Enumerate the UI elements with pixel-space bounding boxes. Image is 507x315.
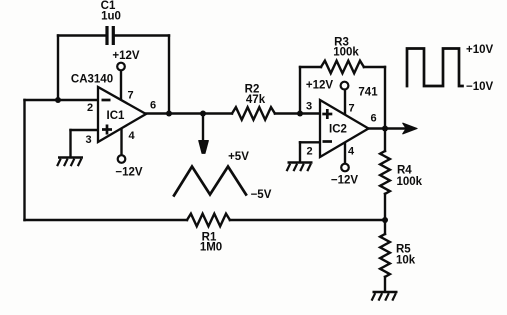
op-amp U1 IC1 CA3140 — [71, 74, 146, 143]
node triangle output branch — [200, 111, 206, 117]
arrow square wave output — [403, 123, 417, 134]
arrow triangle output probe — [199, 141, 209, 154]
ground below IC1 pin 3 — [57, 158, 83, 167]
wire IC2 output — [369, 127, 406, 129]
wire bottom feedback run left of R1 — [25, 219, 188, 221]
resistor R2 — [232, 84, 275, 120]
node feedback junction at IC1 output — [166, 111, 172, 117]
wire IC1 pin4 supply drop — [120, 126, 122, 155]
svg-text:−12V: −12V — [115, 167, 143, 179]
pin 4 label IC2 — [348, 146, 355, 158]
+12V supply terminal of IC2 — [306, 80, 348, 92]
wire left vertical feedback run — [23, 100, 25, 220]
svg-text:1u0: 1u0 — [101, 11, 121, 23]
wire bottom feedback run right of R1 — [230, 219, 385, 221]
square waveform symbol — [407, 44, 494, 93]
svg-text:4: 4 — [129, 130, 136, 142]
node R4 R5 junction — [382, 217, 388, 223]
svg-text:R4: R4 — [397, 165, 412, 177]
ground below R5 — [372, 292, 398, 301]
svg-text:−12V: −12V — [331, 175, 359, 187]
svg-text:2: 2 — [87, 102, 93, 114]
svg-text:47k: 47k — [246, 94, 266, 106]
triangle waveform symbol — [174, 151, 272, 201]
svg-text:6: 6 — [371, 113, 377, 125]
svg-text:IC1: IC1 — [107, 110, 126, 122]
svg-text:+12V: +12V — [112, 50, 140, 62]
wire R2 to IC2 pin3 — [275, 112, 321, 114]
wire IC2 pin2 horizontal — [300, 141, 321, 143]
pin 4 label IC1 — [129, 130, 136, 142]
node A IC1 inverting input junction — [55, 97, 61, 103]
wire IC1 inverting input line — [25, 99, 100, 101]
svg-text:+12V: +12V — [306, 80, 334, 92]
pin 6 label IC1 — [150, 100, 156, 112]
wire IC2 pin4 supply drop — [344, 140, 346, 164]
svg-text:+5V: +5V — [228, 151, 249, 163]
wire C1 feedback top right segment — [115, 34, 169, 36]
wire IC1 pin7 supply drop — [120, 71, 122, 104]
capacitor C1 — [101, 0, 121, 45]
svg-text:7: 7 — [349, 103, 355, 115]
svg-text:4: 4 — [348, 146, 355, 158]
svg-text:CA3140: CA3140 — [71, 74, 113, 86]
pin 3 label IC1 — [86, 134, 92, 146]
svg-text:741: 741 — [358, 87, 378, 99]
wire C1 feedback top left segment — [58, 34, 105, 36]
svg-text:3: 3 — [86, 134, 92, 146]
svg-text:2: 2 — [307, 146, 313, 158]
wire C1 feedback right vertical — [168, 36, 170, 114]
wire IC1 output to R2 — [146, 112, 232, 114]
resistor R1 — [187, 214, 230, 254]
resistor R3 with feedback wires — [300, 37, 385, 129]
svg-text:3: 3 — [306, 101, 312, 113]
svg-text:1M0: 1M0 — [200, 242, 222, 254]
pin 7 label IC1 — [128, 90, 134, 102]
pin 7 label IC2 — [349, 103, 355, 115]
-12V supply terminal of IC1 — [115, 155, 143, 178]
svg-text:−5V: −5V — [251, 189, 272, 201]
wire IC2 pin7 supply drop — [344, 90, 346, 115]
pin 3 label IC2 — [306, 101, 312, 113]
op-amp U2 IC2 741 — [320, 87, 378, 158]
svg-text:100k: 100k — [333, 47, 359, 59]
resistor R4 — [380, 129, 423, 221]
wire IC2 pin2 ground drop — [299, 142, 301, 161]
node IC2 output junction — [382, 126, 388, 132]
wire IC1 pin3 horizontal — [71, 129, 100, 131]
pin 6 label IC2 — [371, 113, 377, 125]
svg-text:6: 6 — [150, 100, 156, 112]
wire C1 feedback left vertical — [57, 36, 59, 101]
svg-text:100k: 100k — [397, 176, 423, 188]
pin 2 label IC1 — [87, 102, 93, 114]
svg-text:+10V: +10V — [466, 44, 494, 56]
svg-text:10k: 10k — [396, 255, 416, 267]
svg-text:7: 7 — [128, 90, 134, 102]
wire triangle probe drop — [202, 114, 204, 142]
ground below IC2 pin 2 — [287, 163, 313, 172]
svg-text:−10V: −10V — [466, 81, 494, 93]
-12V supply terminal of IC2 — [331, 164, 359, 187]
resistor R5 — [380, 220, 416, 291]
node R3 feedback junction at IC2 input — [297, 111, 303, 117]
svg-text:IC2: IC2 — [329, 124, 347, 136]
+12V supply terminal of IC1 — [112, 50, 140, 70]
wire IC1 pin3 ground drop — [69, 130, 71, 157]
pin 2 label IC2 — [307, 146, 313, 158]
